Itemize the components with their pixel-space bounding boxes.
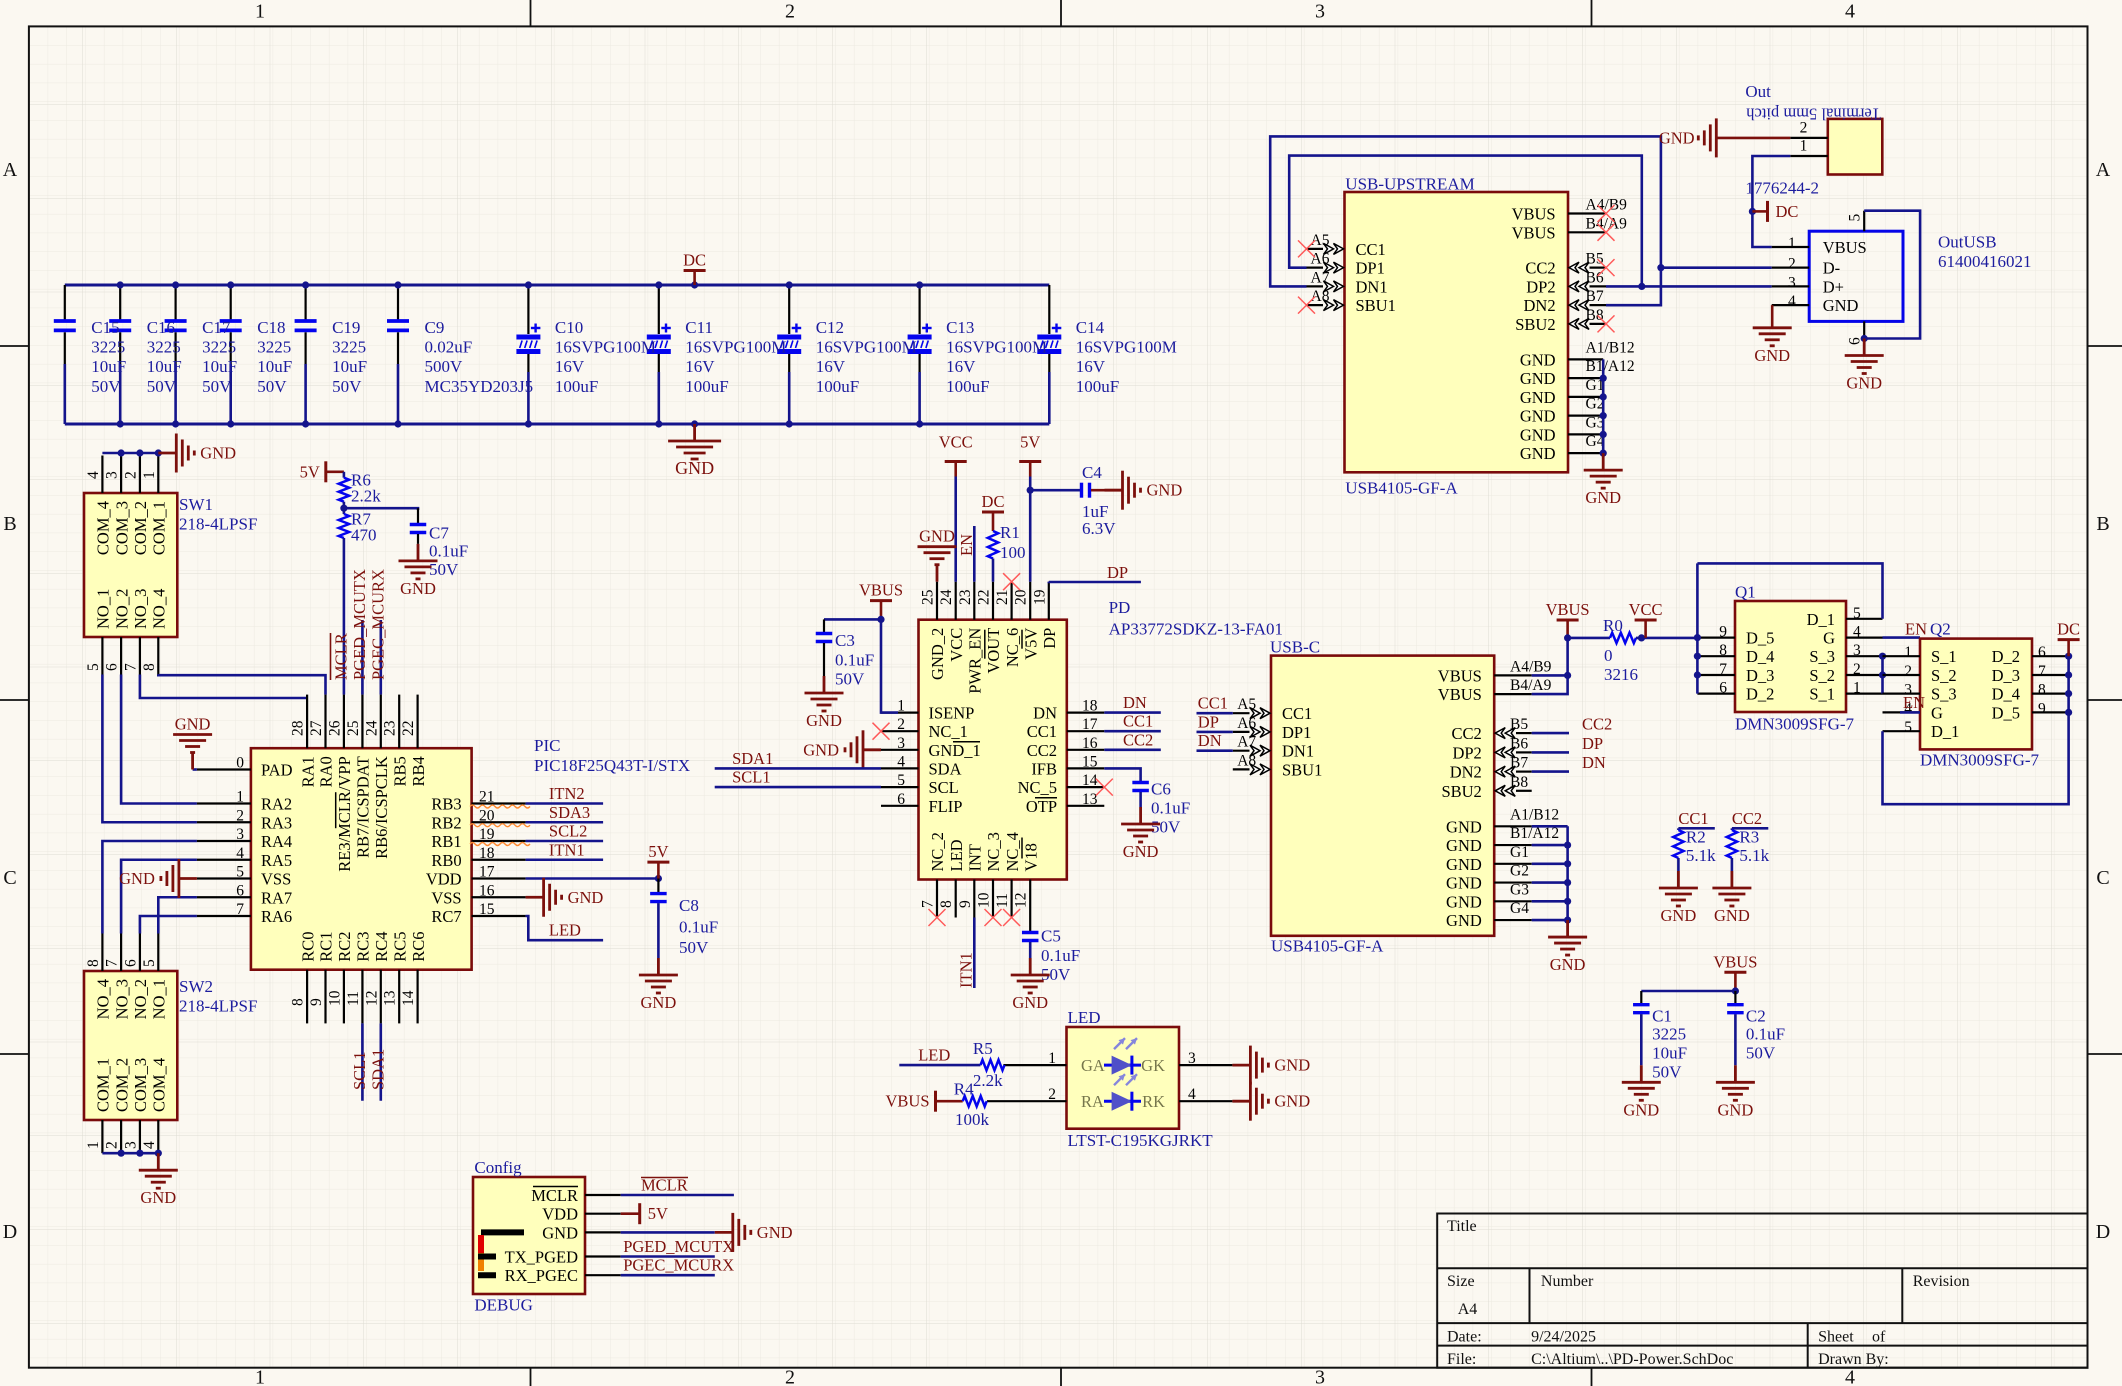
svg-text:5: 5: [85, 663, 102, 671]
value label C15: [91, 318, 126, 396]
value label C9: [425, 318, 534, 396]
wire VBUS to C1 C2: [1641, 990, 1735, 993]
capacitor C16: [109, 285, 131, 424]
svg-text:C2: C2: [1746, 1006, 1766, 1025]
svg-text:S_1: S_1: [1931, 647, 1957, 666]
svg-text:VBUS: VBUS: [1823, 238, 1867, 257]
svg-text:RB6/ICSPCLK: RB6/ICSPCLK: [372, 756, 391, 859]
svg-text:LED: LED: [918, 1046, 950, 1065]
svg-text:Out: Out: [1745, 82, 1771, 101]
svg-text:AP33772SDKZ-13-FA01: AP33772SDKZ-13-FA01: [1109, 620, 1283, 639]
svg-text:R3: R3: [1739, 828, 1759, 847]
svg-text:4: 4: [141, 1141, 158, 1149]
svg-text:470: 470: [351, 526, 377, 545]
svg-text:D: D: [3, 1221, 17, 1243]
svg-text:DN: DN: [1198, 731, 1222, 750]
svg-text:NC_2: NC_2: [928, 832, 947, 871]
svg-text:COM_1: COM_1: [94, 1058, 113, 1112]
svg-text:23: 23: [382, 720, 399, 736]
svg-text:DEBUG: DEBUG: [474, 1296, 533, 1315]
svg-text:VDD: VDD: [426, 870, 462, 889]
svg-text:Title: Title: [1447, 1218, 1477, 1235]
svg-text:1: 1: [897, 698, 905, 715]
svg-text:SBU1: SBU1: [1282, 760, 1322, 779]
svg-text:50V: 50V: [147, 377, 177, 396]
debug header DEBUG: [473, 1158, 621, 1315]
svg-text:A1/B12: A1/B12: [1510, 806, 1559, 823]
svg-text:D_5: D_5: [1992, 703, 2020, 722]
svg-text:RB3: RB3: [431, 795, 461, 814]
svg-text:C13: C13: [946, 318, 974, 337]
svg-text:INT: INT: [966, 844, 985, 872]
wire CC1 to R2: [1678, 827, 1714, 830]
svg-text:RA0: RA0: [317, 756, 336, 787]
svg-text:3: 3: [236, 826, 244, 843]
svg-text:GND: GND: [542, 1223, 578, 1242]
ground GND above PD pin 25: [918, 547, 957, 582]
svg-text:13: 13: [382, 990, 399, 1006]
svg-text:25: 25: [920, 589, 937, 605]
svg-text:18: 18: [479, 845, 495, 862]
svg-text:50V: 50V: [91, 377, 121, 396]
capacitor C7 0.1uF: [410, 508, 468, 579]
svg-text:MCLR: MCLR: [531, 1186, 578, 1205]
svg-text:V5V: V5V: [1021, 628, 1040, 660]
svg-text:GK: GK: [1141, 1056, 1165, 1075]
svg-text:3225: 3225: [1652, 1025, 1686, 1044]
wire D- from loop to OutUSB: [1661, 266, 1772, 269]
svg-text:D+: D+: [1823, 277, 1844, 296]
wire Q1 sources to Q2 sources: [1881, 656, 1884, 693]
svg-text:14: 14: [400, 990, 417, 1006]
wire LED net to R5: [899, 1064, 980, 1067]
ground GND at USB-UPSTREAM: [1584, 453, 1623, 488]
svg-text:2: 2: [1853, 661, 1861, 678]
svg-text:D_2: D_2: [1746, 685, 1774, 704]
svg-text:16SVPG100M: 16SVPG100M: [946, 338, 1047, 357]
svg-text:VDD: VDD: [542, 1205, 578, 1224]
power port VCC at R0: [1635, 620, 1657, 638]
svg-text:RB2: RB2: [431, 813, 461, 832]
svg-text:16: 16: [479, 882, 495, 899]
svg-text:R4: R4: [954, 1079, 974, 1098]
svg-text:CC1: CC1: [1198, 694, 1228, 713]
svg-text:3: 3: [1788, 274, 1796, 291]
svg-text:7: 7: [236, 901, 244, 918]
svg-text:GND: GND: [1274, 1092, 1310, 1111]
wire DP2 to OutUSB D+: [1606, 285, 1772, 288]
wire USB-C VBUS pins to VBUS bus: [1532, 675, 1568, 694]
wire DEBUG TX_PGED: [621, 1255, 715, 1258]
svg-text:5.1k: 5.1k: [1739, 846, 1769, 865]
svg-text:GND: GND: [1659, 128, 1695, 147]
svg-text:7: 7: [104, 959, 121, 967]
capacitor C2 0.1uF: [1727, 991, 1785, 1065]
svg-text:PD: PD: [1109, 598, 1131, 617]
svg-text:B6: B6: [1510, 735, 1528, 752]
svg-text:C15: C15: [91, 318, 119, 337]
svg-text:10uF: 10uF: [1652, 1044, 1687, 1063]
svg-text:GND: GND: [1846, 374, 1882, 393]
svg-text:CC2: CC2: [1582, 715, 1612, 734]
wire VCC bus to Q1 drains: [1696, 563, 1699, 693]
wire Q2 D_1 to DC bus: [1883, 656, 2069, 804]
svg-text:1: 1: [1853, 680, 1861, 697]
wire CC1 to USB-C A5: [1197, 712, 1233, 715]
wire PIC RB1 SCL2: [526, 840, 604, 843]
svg-text:3: 3: [1315, 1, 1325, 23]
svg-text:1: 1: [255, 1, 265, 23]
svg-text:2: 2: [785, 1367, 795, 1386]
svg-text:6: 6: [104, 663, 121, 671]
svg-text:16V: 16V: [1076, 357, 1106, 376]
svg-text:4: 4: [1845, 1367, 1855, 1386]
svg-text:RC3: RC3: [354, 931, 373, 961]
wire PIC RB2 SDA3: [526, 821, 604, 824]
wire PD DN pin 18: [1104, 711, 1161, 714]
svg-text:A6: A6: [1237, 715, 1256, 732]
svg-text:C: C: [2096, 867, 2109, 889]
svg-text:12: 12: [363, 991, 380, 1007]
svg-text:FLIP: FLIP: [929, 797, 963, 816]
svg-text:4: 4: [1845, 1, 1855, 23]
svg-text:16V: 16V: [555, 357, 585, 376]
svg-text:ISENP: ISENP: [929, 704, 975, 723]
wire VBUS junction at R0: [1568, 637, 1610, 640]
svg-text:1: 1: [1048, 1050, 1056, 1067]
svg-text:3: 3: [1853, 642, 1861, 659]
svg-text:DN: DN: [1033, 704, 1057, 723]
svg-text:RC4: RC4: [372, 931, 391, 961]
capacitor C4 1uF: [1030, 463, 1122, 538]
svg-text:D_2: D_2: [1992, 647, 2020, 666]
wire PIC RC4 SDA1 down: [379, 1023, 382, 1100]
capacitor C9: [387, 285, 409, 424]
svg-text:D_1: D_1: [1931, 722, 1959, 741]
svg-text:C:\Altium\..\PD-Power.SchDoc: C:\Altium\..\PD-Power.SchDoc: [1531, 1351, 1733, 1368]
ground GND at PIC VSS pin 5: [161, 859, 197, 898]
wire OutUSB shield loop pins 5 6: [1864, 211, 1920, 339]
capacitor C1 10uF: [1633, 991, 1687, 1082]
svg-text:1: 1: [1788, 235, 1796, 252]
svg-text:R2: R2: [1686, 828, 1706, 847]
ground GND at OutUSB pin 4: [1753, 305, 1792, 365]
wire PD INT pin 9 ITN1: [973, 918, 976, 989]
svg-text:7: 7: [920, 900, 937, 908]
svg-text:NO_1: NO_1: [150, 979, 169, 1019]
svg-text:A8: A8: [1311, 288, 1330, 305]
ground GND sideways at Out pin 2: [1659, 118, 1790, 157]
svg-text:DP: DP: [1040, 628, 1059, 649]
ground GND at R3: [1712, 871, 1751, 906]
svg-text:25: 25: [345, 720, 362, 736]
svg-text:DMN3009SFG-7: DMN3009SFG-7: [1920, 751, 2040, 770]
svg-text:GND: GND: [803, 740, 839, 759]
net label MCLR at DEBUG: [641, 1176, 688, 1195]
svg-text:CC1: CC1: [1282, 704, 1312, 723]
title block: [1437, 1214, 2087, 1368]
ground GND at DEBUG: [715, 1213, 751, 1252]
svg-text:4: 4: [1853, 624, 1861, 641]
wire 5V to R6: [343, 472, 346, 478]
svg-text:SBU1: SBU1: [1356, 296, 1396, 315]
resistor R5 2.2k: [973, 1039, 1005, 1090]
svg-text:B8: B8: [1510, 774, 1528, 791]
svg-text:EN: EN: [957, 534, 976, 556]
svg-text:C9: C9: [425, 318, 445, 337]
svg-text:12: 12: [1013, 893, 1030, 909]
svg-text:20: 20: [1013, 589, 1030, 605]
connector USB-UPSTREAM USB4105-GF-A: [1307, 175, 1635, 498]
svg-text:GND: GND: [1520, 350, 1556, 369]
svg-text:GND: GND: [1274, 1056, 1310, 1075]
svg-text:50V: 50V: [332, 377, 362, 396]
svg-text:8: 8: [2038, 682, 2046, 699]
svg-text:5: 5: [897, 772, 905, 789]
value label C16: [147, 318, 182, 396]
svg-text:16: 16: [1082, 735, 1098, 752]
svg-text:5V: 5V: [300, 462, 320, 481]
svg-text:D_4: D_4: [1992, 685, 2020, 704]
svg-text:OutUSB: OutUSB: [1938, 233, 1997, 252]
svg-text:3225: 3225: [202, 338, 236, 357]
resistor R1 100: [988, 523, 1026, 562]
svg-text:5: 5: [1853, 605, 1861, 622]
power port VBUS above R0: [1557, 620, 1579, 638]
svg-text:SDA3: SDA3: [549, 803, 590, 822]
svg-text:DN2: DN2: [1524, 296, 1556, 315]
svg-text:5.1k: 5.1k: [1686, 846, 1716, 865]
power port 5V at R6: [326, 461, 344, 482]
terminal Out 1776244-2: [1745, 82, 1882, 198]
svg-text:DC: DC: [2057, 620, 2080, 639]
svg-text:GND: GND: [1520, 369, 1556, 388]
svg-text:16SVPG100M: 16SVPG100M: [555, 338, 656, 357]
svg-text:GND: GND: [919, 527, 955, 546]
svg-text:10: 10: [326, 990, 343, 1006]
svg-text:SDA: SDA: [929, 759, 962, 778]
transistor Q1 DMN3009SFG-7: [1697, 583, 1882, 734]
svg-text:GA: GA: [1081, 1056, 1105, 1075]
svg-text:10uF: 10uF: [257, 357, 292, 376]
svg-text:1: 1: [255, 1367, 265, 1386]
svg-text:14: 14: [1082, 772, 1098, 789]
svg-text:DN1: DN1: [1282, 742, 1314, 761]
wire bottom rail net GND: [65, 423, 1050, 426]
capacitor C6 0.1uF: [1132, 780, 1190, 837]
svg-text:R1: R1: [1000, 523, 1020, 542]
ground GND at LED pin 3: [1232, 1046, 1268, 1085]
svg-text:100k: 100k: [955, 1110, 990, 1129]
svg-text:GND: GND: [1714, 906, 1750, 925]
svg-text:22: 22: [976, 590, 993, 606]
svg-text:NC_6: NC_6: [1003, 628, 1022, 667]
svg-text:SBU2: SBU2: [1441, 782, 1481, 801]
svg-text:10uF: 10uF: [202, 357, 237, 376]
svg-text:28: 28: [290, 720, 307, 736]
svg-text:D: D: [2096, 1221, 2110, 1243]
svg-text:C12: C12: [816, 318, 844, 337]
svg-text:10: 10: [976, 892, 993, 908]
svg-text:GND: GND: [806, 711, 842, 730]
svg-text:50V: 50V: [679, 938, 709, 957]
svg-text:6: 6: [2038, 644, 2046, 661]
svg-text:3: 3: [897, 735, 905, 752]
ground GND at C3: [805, 676, 844, 711]
power port VBUS at C1 C2: [1724, 972, 1746, 991]
svg-text:Config: Config: [474, 1158, 522, 1177]
svg-text:RA3: RA3: [261, 813, 292, 832]
wire SW1.6 to PIC RA2: [121, 675, 197, 804]
svg-text:G3: G3: [1510, 881, 1529, 898]
svg-text:11: 11: [345, 991, 362, 1006]
svg-text:A1/B12: A1/B12: [1586, 339, 1635, 356]
svg-text:RA7: RA7: [261, 888, 292, 907]
svg-text:LED: LED: [1068, 1008, 1101, 1027]
wire CC2 to R3: [1732, 827, 1768, 830]
svg-text:GND: GND: [400, 579, 436, 598]
net label MCLR: [331, 633, 351, 680]
ground GND at PIC VSS pin 16: [526, 878, 562, 917]
svg-text:CC1: CC1: [1027, 722, 1057, 741]
svg-text:0: 0: [236, 755, 244, 772]
svg-text:A4/B9: A4/B9: [1510, 658, 1552, 675]
svg-text:50V: 50V: [1652, 1063, 1682, 1082]
svg-text:5: 5: [1847, 214, 1864, 222]
svg-text:C4: C4: [1082, 463, 1102, 482]
wire PIC VDD to 5V and C8: [526, 877, 659, 880]
wire EN at Q2 gate: [1900, 711, 1920, 714]
svg-text:DN: DN: [1123, 693, 1147, 712]
svg-text:0.02uF: 0.02uF: [425, 338, 473, 357]
svg-text:DP: DP: [1198, 712, 1219, 731]
svg-text:NC_4: NC_4: [1003, 832, 1022, 871]
value label C19: [332, 318, 367, 396]
svg-text:S_1: S_1: [1809, 685, 1835, 704]
wire DN1 to DN2 loop: [1270, 136, 1661, 305]
resistor R3 5.1k: [1727, 828, 1770, 871]
wire SW2.7 to PIC RA5: [121, 860, 197, 934]
svg-text:3225: 3225: [91, 338, 125, 357]
svg-text:D_1: D_1: [1807, 610, 1835, 629]
value label C13: [946, 318, 1047, 396]
ground GND at OutUSB pin 6: [1845, 339, 1884, 374]
svg-text:B7: B7: [1510, 755, 1528, 772]
svg-text:CC2: CC2: [1525, 259, 1555, 278]
power port 5V at DEBUG VDD: [621, 1203, 640, 1224]
no-ERC marks USB-UPSTREAM VBUS CC2 SBU2 A5 A8: [1298, 205, 1615, 332]
svg-text:GND_1: GND_1: [929, 741, 981, 760]
svg-text:MC35YD203J5: MC35YD203J5: [425, 377, 534, 396]
svg-text:D_5: D_5: [1746, 629, 1774, 648]
svg-text:C3: C3: [835, 631, 855, 650]
orange squiggles at PIC pins 21 20 19: [470, 805, 530, 846]
svg-text:B5: B5: [1510, 716, 1528, 733]
svg-text:S_3: S_3: [1809, 647, 1835, 666]
svg-text:9: 9: [957, 900, 974, 908]
svg-text:GND_2: GND_2: [928, 628, 947, 680]
switch SW1 218-4LPSF: [84, 456, 257, 675]
value label C17: [202, 318, 237, 396]
svg-text:S_3: S_3: [1931, 685, 1957, 704]
svg-text:Date:: Date:: [1447, 1329, 1482, 1346]
junction dots on DC bus: [2065, 653, 2072, 716]
svg-text:100uF: 100uF: [1076, 377, 1119, 396]
wire PD DP pin 19: [1049, 580, 1141, 583]
svg-text:RB1: RB1: [431, 832, 461, 851]
svg-text:RA4: RA4: [261, 832, 292, 851]
svg-text:IFB: IFB: [1031, 759, 1057, 778]
svg-text:PGED_MCUTX: PGED_MCUTX: [350, 569, 369, 680]
svg-text:C6: C6: [1151, 780, 1171, 799]
svg-text:C8: C8: [679, 896, 699, 915]
ground GND at R2: [1659, 871, 1698, 906]
svg-text:USB-C: USB-C: [1270, 638, 1320, 657]
svg-text:C1: C1: [1652, 1006, 1672, 1025]
ground GND at C8: [639, 958, 678, 993]
power port DC at capacitor bank: [684, 271, 706, 286]
svg-text:A: A: [3, 159, 18, 181]
svg-text:CC2: CC2: [1027, 741, 1057, 760]
svg-text:2.2k: 2.2k: [973, 1071, 1003, 1090]
wire PIC RC7 to LED net: [526, 916, 604, 940]
svg-text:DP: DP: [1107, 563, 1128, 582]
svg-text:GND: GND: [1585, 488, 1621, 507]
wire SW2.8 to PIC RA4: [102, 841, 196, 934]
svg-text:MCLR: MCLR: [331, 633, 350, 680]
svg-text:5: 5: [236, 864, 244, 881]
svg-text:C16: C16: [147, 318, 175, 337]
svg-text:4: 4: [1788, 293, 1796, 310]
svg-text:GND: GND: [1446, 817, 1482, 836]
resistor R7 470: [339, 510, 377, 545]
svg-text:COM_4: COM_4: [150, 1058, 169, 1112]
svg-text:A8: A8: [1237, 752, 1256, 769]
svg-text:GND: GND: [568, 888, 604, 907]
svg-text:DP2: DP2: [1526, 277, 1555, 296]
ground GND at C4: [1105, 471, 1141, 510]
LED indicator LTST-C195KGJRKT: [987, 1008, 1233, 1150]
wire SW2.6 to PIC RA6: [140, 916, 197, 934]
svg-text:RX_PGEC: RX_PGEC: [505, 1266, 578, 1285]
resistor R4 100k: [954, 1079, 990, 1129]
svg-text:B7: B7: [1586, 288, 1604, 305]
svg-text:RC0: RC0: [298, 931, 317, 961]
wire PGED to PIC pin 25: [361, 620, 364, 695]
svg-text:SBU2: SBU2: [1515, 315, 1555, 334]
svg-text:USB-UPSTREAM: USB-UPSTREAM: [1345, 175, 1474, 194]
svg-text:B5: B5: [1586, 251, 1604, 268]
svg-text:50V: 50V: [835, 670, 865, 689]
svg-text:B8: B8: [1586, 307, 1604, 324]
svg-text:PAD: PAD: [261, 761, 293, 780]
wire DN to USB-C A7: [1197, 749, 1233, 752]
svg-text:GND: GND: [1550, 955, 1586, 974]
PD controller U AP33772SDKZ-13-FA01: [881, 582, 1283, 918]
svg-text:26: 26: [326, 720, 343, 736]
wire R1 to PD pin 22: [992, 559, 995, 582]
svg-text:2: 2: [236, 807, 244, 824]
svg-text:11: 11: [994, 893, 1011, 908]
wire VBUS to C3 and PD pin 1: [824, 619, 898, 712]
capacitor C18: [220, 285, 242, 424]
wire R7 to PIC MCLR pin 26: [343, 538, 346, 695]
power port DC at R1: [982, 512, 1004, 531]
svg-text:2: 2: [1788, 256, 1796, 273]
svg-text:1776244-2: 1776244-2: [1745, 179, 1819, 198]
svg-text:0.1uF: 0.1uF: [1041, 946, 1080, 965]
svg-text:C17: C17: [202, 318, 231, 337]
